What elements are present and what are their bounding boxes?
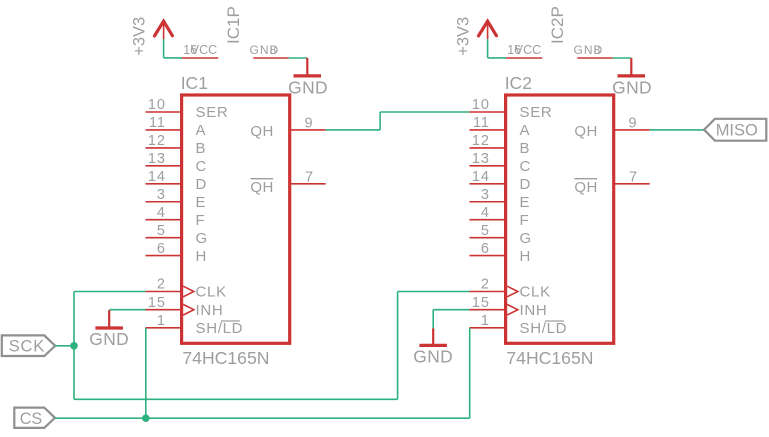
svg-text:H: H	[196, 248, 208, 265]
svg-text:IC1P: IC1P	[224, 6, 243, 44]
svg-text:SER: SER	[520, 104, 553, 121]
wire net IC2.QH to MISO	[650, 129, 704, 131]
svg-text:CLK: CLK	[196, 284, 227, 301]
svg-text:GND: GND	[413, 347, 453, 367]
svg-text:6: 6	[481, 241, 490, 257]
svg-text:CS: CS	[20, 410, 43, 428]
svg-text:C: C	[520, 158, 532, 175]
svg-text:G: G	[520, 230, 532, 247]
svg-text:10: 10	[472, 97, 490, 113]
IC2 pin 10 SER	[470, 97, 553, 121]
svg-text:14: 14	[472, 169, 490, 185]
IC2 pin 7 QH-bar (overline)	[574, 170, 649, 196]
CS tag	[14, 408, 55, 428]
svg-text:SCK: SCK	[9, 337, 45, 355]
wire SCK to IC2.CLK	[398, 291, 470, 293]
IC2 pin 5 G	[470, 223, 532, 247]
svg-text:SH/LD: SH/LD	[196, 320, 244, 337]
svg-text:B: B	[520, 140, 531, 157]
IC1 pin 3 E	[146, 187, 207, 211]
IC1 pin 1 SH/LD (overline on LD)	[146, 313, 244, 337]
wire IC2.SH-LD vertical	[469, 328, 471, 418]
svg-text:IC1: IC1	[181, 73, 208, 93]
svg-text:D: D	[196, 176, 208, 193]
svg-text:QH: QH	[250, 123, 274, 140]
svg-text:11: 11	[149, 115, 166, 131]
svg-text:9: 9	[629, 115, 637, 131]
svg-text:GND: GND	[89, 329, 129, 349]
svg-text:SER: SER	[196, 104, 229, 121]
svg-text:INH: INH	[196, 302, 224, 319]
svg-text:VCC: VCC	[515, 43, 541, 57]
svg-text:9: 9	[305, 115, 313, 131]
+3V3 supply arrow	[155, 21, 173, 39]
wire +3V3 to VCC pin	[164, 39, 182, 58]
IC1 pin 14 D	[146, 169, 208, 193]
wire SCK vertical right	[397, 292, 399, 400]
svg-text:G: G	[196, 230, 208, 247]
svg-text:13: 13	[472, 151, 490, 167]
svg-text:E: E	[520, 194, 531, 211]
svg-text:14: 14	[148, 169, 166, 185]
svg-text:12: 12	[148, 133, 166, 149]
svg-text:5: 5	[481, 223, 490, 239]
IC2 pin 2 CLK (clock wedge)	[470, 277, 551, 301]
IC1 pin 12 B	[146, 133, 207, 157]
svg-text:A: A	[196, 122, 207, 139]
IC1 pin 4 F	[146, 205, 206, 229]
IC1 pin 9 QH	[250, 115, 325, 140]
MISO tag	[704, 119, 766, 141]
IC2 pin 8 GND	[574, 43, 613, 58]
IC2 pin 6 H	[470, 241, 532, 265]
svg-text:VCC: VCC	[191, 43, 217, 57]
svg-text:D: D	[520, 176, 532, 193]
IC2 pin 14 D	[470, 169, 532, 193]
IC2 pin 15 INH (clock wedge)	[470, 295, 548, 319]
wire net IC1.QH to IC2.SER	[326, 112, 470, 130]
svg-text:4: 4	[157, 205, 166, 221]
svg-text:4: 4	[481, 205, 490, 221]
IC1 pin 8 GND	[250, 43, 289, 58]
wire CS horizontal	[55, 417, 470, 419]
svg-text:1: 1	[481, 313, 490, 329]
ground symbol (top, IC1)	[288, 58, 328, 98]
svg-text:6: 6	[157, 241, 166, 257]
svg-text:E: E	[196, 194, 207, 211]
svg-text:IC2: IC2	[505, 73, 532, 93]
IC1 pin 16 VCC	[182, 43, 218, 58]
svg-text:F: F	[520, 212, 530, 229]
ground symbol (IC2 INH)	[413, 328, 453, 366]
svg-text:GND: GND	[612, 78, 652, 98]
svg-text:3: 3	[157, 187, 166, 203]
junction SCK	[70, 342, 78, 350]
IC2 pin 1 SH/LD (overline on LD)	[470, 313, 568, 337]
wire GND pin to ground	[289, 57, 308, 59]
IC2 pin 4 F	[470, 205, 530, 229]
svg-text:H: H	[520, 248, 532, 265]
IC1 pin 15 INH (clock wedge)	[146, 295, 224, 319]
svg-text:GND: GND	[288, 78, 328, 98]
IC1 pin 5 G	[146, 223, 208, 247]
IC2 pin 12 B	[470, 133, 531, 157]
svg-text:QH: QH	[250, 179, 274, 196]
wire IC1.SH-LD vertical	[145, 328, 147, 418]
+3V3 supply arrow	[479, 21, 497, 39]
junction CS / IC1.SH-LD	[142, 414, 150, 422]
svg-text:13: 13	[148, 151, 166, 167]
SCK tag	[2, 335, 55, 356]
IC1 pin 2 CLK (clock wedge)	[146, 277, 227, 301]
svg-text:+3V3: +3V3	[130, 17, 148, 56]
IC1 pin 6 H	[146, 241, 208, 265]
svg-text:15: 15	[472, 295, 490, 311]
wire IC2.INH to ground	[433, 310, 469, 329]
svg-text:2: 2	[481, 277, 490, 293]
svg-text:IC2P: IC2P	[548, 6, 567, 44]
IC1 pin 7 QH-bar (overline)	[250, 170, 325, 196]
svg-text:74HC165N: 74HC165N	[506, 348, 593, 368]
wire SCK to IC1.CLK	[74, 291, 146, 293]
wire GND pin to ground	[613, 57, 632, 59]
svg-text:MISO: MISO	[716, 122, 758, 140]
IC1 74HC165N box	[182, 95, 290, 343]
svg-text:A: A	[520, 122, 531, 139]
IC1 pin 11 A	[146, 115, 207, 139]
svg-text:7: 7	[305, 170, 313, 186]
svg-text:3: 3	[481, 187, 490, 203]
svg-text:7: 7	[629, 170, 637, 186]
svg-text:CLK: CLK	[520, 284, 551, 301]
svg-text:C: C	[196, 158, 208, 175]
wire SCK tag to vertical	[55, 345, 74, 347]
svg-text:8: 8	[270, 43, 277, 57]
svg-text:2: 2	[157, 277, 166, 293]
svg-text:SH/LD: SH/LD	[520, 320, 568, 337]
svg-text:1: 1	[157, 313, 166, 329]
wire SCK bottom horizontal	[74, 398, 398, 400]
svg-text:F: F	[196, 212, 206, 229]
svg-text:8: 8	[594, 43, 601, 57]
ground symbol (IC1 INH)	[89, 310, 129, 349]
IC2 pin 16 VCC	[506, 43, 542, 58]
svg-text:11: 11	[473, 115, 490, 131]
IC2 74HC165N box	[506, 95, 614, 343]
svg-text:10: 10	[148, 97, 166, 113]
IC2 pin 11 A	[470, 115, 531, 139]
IC2 pin 3 E	[470, 187, 531, 211]
IC2 pin 13 C	[470, 151, 532, 175]
wire IC1.INH to ground	[109, 309, 145, 311]
wire SCK vertical left	[73, 292, 75, 400]
svg-text:QH: QH	[574, 123, 598, 140]
IC1 pin 13 C	[146, 151, 208, 175]
svg-text:QH: QH	[574, 179, 598, 196]
svg-text:B: B	[196, 140, 207, 157]
svg-text:15: 15	[148, 295, 166, 311]
svg-text:5: 5	[157, 223, 166, 239]
svg-text:+3V3: +3V3	[454, 17, 472, 56]
ground symbol (top, IC2)	[612, 58, 652, 98]
IC2 pin 9 QH	[574, 115, 649, 140]
svg-text:74HC165N: 74HC165N	[182, 348, 269, 368]
IC1 pin 10 SER	[146, 97, 229, 121]
svg-text:12: 12	[472, 133, 490, 149]
svg-text:INH: INH	[520, 302, 548, 319]
wire +3V3 to VCC pin	[488, 39, 506, 58]
